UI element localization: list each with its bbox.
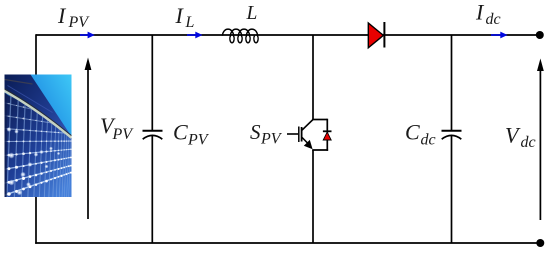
svg-text:C: C	[173, 120, 188, 145]
svg-text:L: L	[246, 3, 258, 24]
svg-text:PV: PV	[68, 14, 91, 31]
svg-text:S: S	[250, 120, 261, 144]
voltage arrow V_PV	[85, 58, 92, 220]
wire: switch branch bottom	[312, 150, 314, 243]
svg-text:I: I	[175, 3, 185, 28]
PV panel photo (solar array image)	[4, 75, 165, 199]
svg-text:PV: PV	[112, 126, 135, 143]
current arrow I_dc	[491, 32, 508, 39]
svg-text:I: I	[475, 0, 485, 25]
current arrow I_PV	[80, 32, 95, 39]
wire: switch branch top	[312, 35, 314, 120]
current label I_PV	[57, 3, 90, 31]
svg-text:PV: PV	[260, 131, 283, 148]
label S_PV	[250, 120, 283, 148]
label C_PV	[173, 120, 210, 149]
svg-text:dc: dc	[421, 132, 436, 149]
wire: top rail	[36, 34, 538, 36]
svg-text:C: C	[405, 120, 420, 145]
node: output negative terminal	[536, 239, 544, 247]
voltage label V_dc	[505, 123, 536, 152]
capacitor C_dc	[442, 131, 462, 140]
wire: bottom rail	[35, 242, 538, 244]
label L	[246, 3, 258, 24]
wire: CPV branch top	[151, 35, 153, 131]
current arrow I_L	[187, 32, 203, 39]
voltage label V_PV	[100, 113, 134, 143]
diode D (boost diode)	[368, 22, 384, 48]
current label I_dc	[475, 0, 501, 28]
svg-text:L: L	[185, 14, 195, 31]
svg-text:dc: dc	[486, 11, 501, 28]
capacitor C_PV	[143, 131, 163, 140]
svg-text:V: V	[505, 123, 521, 148]
wire: Cdc branch bottom	[451, 136, 453, 243]
wire: left rail	[35, 34, 37, 244]
wire: Cdc branch top	[451, 35, 453, 131]
inductor L	[223, 29, 259, 43]
wire: CPV branch bottom	[151, 136, 153, 243]
node: output positive terminal	[536, 31, 544, 39]
voltage arrow V_dc	[537, 59, 544, 221]
svg-text:dc: dc	[521, 134, 536, 151]
current label I_L	[175, 3, 195, 31]
transistor S_PV (IGBT with anti-parallel diode)	[287, 119, 332, 151]
svg-text:PV: PV	[187, 132, 210, 149]
label C_dc	[405, 120, 436, 149]
svg-text:I: I	[57, 3, 67, 28]
